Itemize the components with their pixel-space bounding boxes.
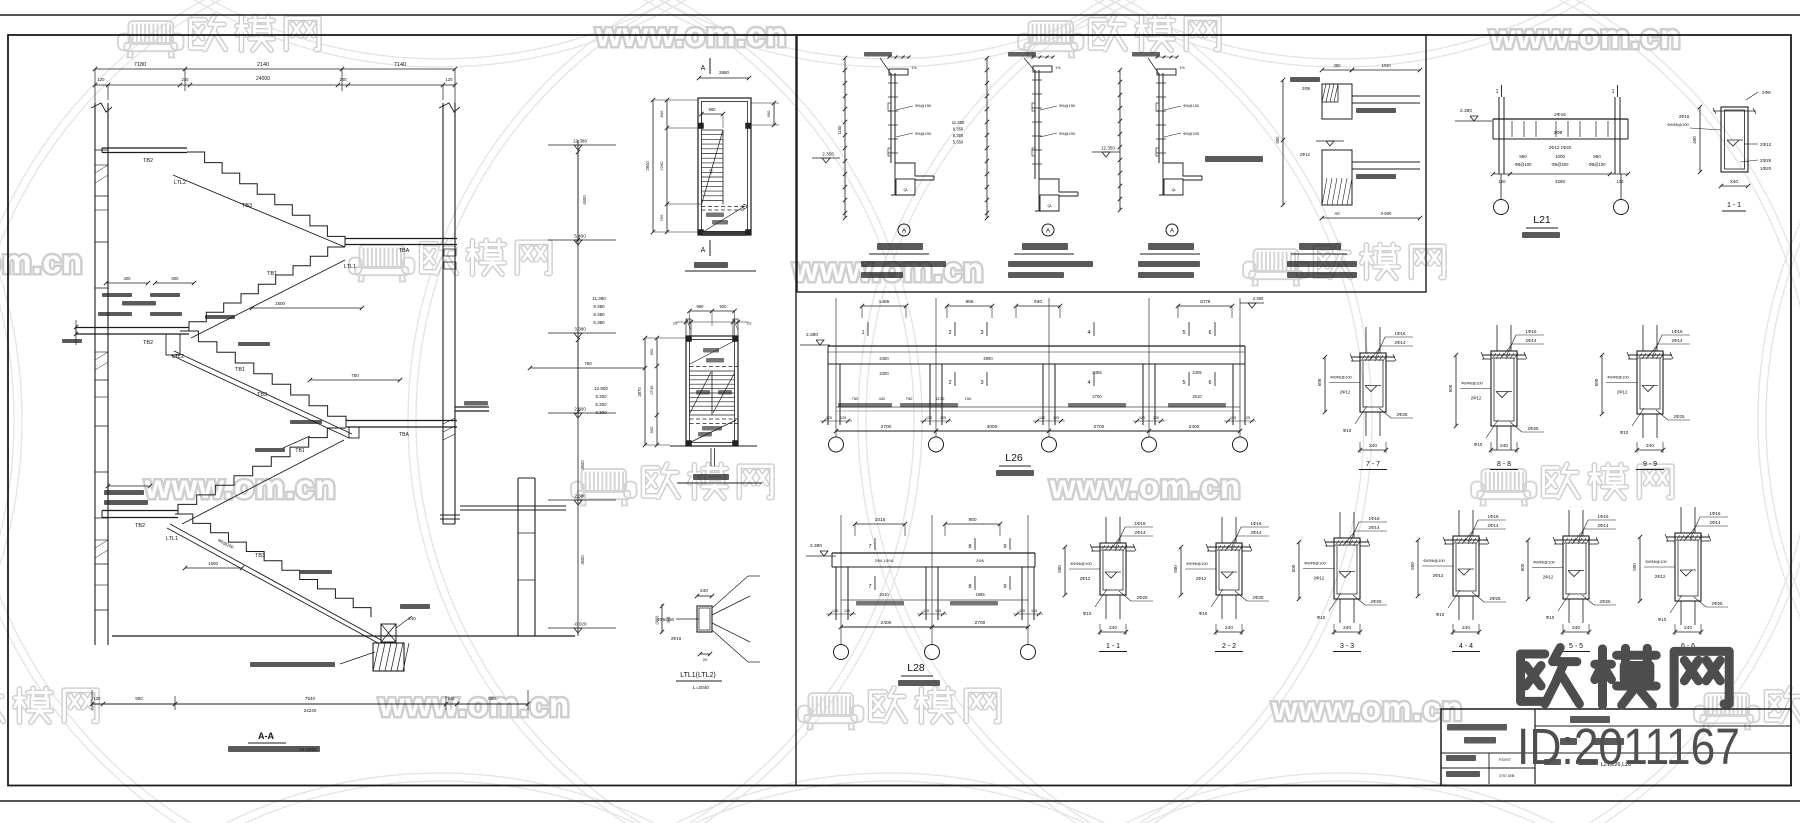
plan2 left dims [656,338,658,445]
svg-text:24240: 24240 [304,708,317,713]
svg-text:400: 400 [1692,136,1697,144]
plan2 flight diagonals [690,372,711,413]
svg-text:950: 950 [1519,154,1527,159]
L21 beam band [1493,118,1628,120]
svg-text:1: 1 [1496,89,1499,95]
svg-text:2700: 2700 [1094,424,1105,430]
railing plate [1158,73,1160,163]
svg-text:7: 7 [868,544,871,550]
svg-text:350: 350 [666,616,671,623]
svg-text:360: 360 [1334,63,1342,68]
svg-text:9: 9 [1003,544,1006,550]
svg-text:125: 125 [1019,609,1025,613]
svg-text:1Φ16: 1Φ16 [1134,521,1146,526]
railing handrail cap [889,69,908,75]
L26 top dims [862,305,906,307]
LTL1 left dim [661,604,663,633]
left wall hatch blocks [95,165,108,210]
plan2 top diagonal [690,340,736,364]
svg-text:125: 125 [1244,416,1250,420]
svg-text:TB2: TB2 [143,340,153,346]
section 8-8 [1496,325,1498,351]
svg-text:Φ10: Φ10 [1317,615,1326,620]
svg-text:1: 1 [1612,89,1615,95]
svg-text:2Φ12: 2Φ12 [1760,142,1772,147]
label 飘窗大样 [1299,243,1341,250]
svg-text:Φ8Φ6@100: Φ8Φ6@100 [1645,559,1667,564]
svg-text:150: 150 [965,396,972,401]
svg-text:950: 950 [1593,154,1601,159]
svg-text:2400: 2400 [881,620,892,626]
svg-text:240: 240 [1462,625,1470,631]
svg-text:2Φ12: 2Φ12 [1300,152,1311,157]
svg-text:1130: 1130 [936,396,945,401]
section 6-6 [1680,507,1682,533]
svg-text:240: 240 [1730,179,1738,185]
svg-text:120: 120 [94,696,102,701]
svg-text:1%: 1% [1179,66,1185,70]
svg-text:Φ10: Φ10 [1546,615,1555,620]
svg-text:2010: 2010 [879,592,889,597]
svg-text:1015: 1015 [875,517,886,523]
svg-text:1500: 1500 [275,301,286,306]
svg-text:L28: L28 [907,662,925,674]
plan1 lower diagonal [703,206,745,232]
svg-text:900: 900 [766,110,771,117]
svg-text:5: 5 [1182,380,1185,386]
svg-text:Φ8@100: Φ8@100 [1589,162,1607,167]
section 9-9 [1642,325,1644,351]
svg-text:Φ6@150: Φ6@150 [1183,103,1200,108]
svg-text:L26: L26 [1005,452,1023,464]
wall beam QL marks [444,249,456,256]
svg-text:125: 125 [1153,416,1159,420]
landing beam block [166,334,180,355]
svg-text:500: 500 [1520,563,1525,571]
base beam [381,624,396,642]
circle A [1166,224,1178,236]
2F dims cluster [106,282,148,284]
svg-text:2Φ12: 2Φ12 [1433,573,1444,578]
svg-text:1Φ16: 1Φ16 [1525,329,1537,334]
svg-text:1%: 1% [911,66,917,70]
svg-text:Φ8Φ6@100: Φ8Φ6@100 [1423,558,1445,563]
svg-text:2Φ25: 2Φ25 [1527,426,1539,431]
svg-text:8.380: 8.380 [593,312,605,317]
svg-text:500: 500 [1632,563,1637,571]
L26 right end level [1248,303,1256,308]
svg-text:2860: 2860 [719,70,730,75]
svg-text:900: 900 [649,426,654,433]
svg-text:2Φ25: 2Φ25 [1599,599,1611,604]
svg-text:1985: 1985 [975,592,985,597]
svg-text:2Φ14: 2Φ14 [1250,530,1262,535]
railing plate [890,73,892,163]
svg-text:960: 960 [709,107,717,112]
svg-text:125: 125 [1039,416,1045,420]
bottom dimension line [92,703,528,705]
svg-text:2Φ16: 2Φ16 [1554,112,1566,118]
svg-text:2Φ6 1Φ16: 2Φ6 1Φ16 [875,558,894,563]
plan1 top dim [699,77,749,79]
svg-text:2Φ12: 2Φ12 [1471,396,1482,401]
svg-text:240: 240 [1500,443,1508,449]
svg-text:430: 430 [879,396,886,401]
svg-text:960: 960 [697,304,705,309]
svg-text:650: 650 [649,348,654,355]
svg-text:8.350: 8.350 [953,133,964,138]
svg-text:1Φ16: 1Φ16 [1487,514,1499,519]
plan1 dim 960 [702,113,724,115]
leader top [1132,52,1160,57]
balcony slab [1163,163,1202,176]
svg-text:1%: 1% [1055,66,1061,70]
svg-text:125: 125 [1053,416,1059,420]
svg-text:500: 500 [1410,562,1415,570]
svg-text:2700: 2700 [881,424,892,430]
svg-text:2: 2 [948,330,951,336]
stair plan view 2 [686,336,738,446]
svg-text:4500: 4500 [582,195,587,205]
svg-text:2.380: 2.380 [806,332,818,338]
svg-text:600: 600 [172,276,180,281]
svg-text:860: 860 [488,696,496,701]
lower block [1322,150,1352,205]
svg-text:9.300: 9.300 [595,394,607,399]
label 阳台栏板2 [1022,243,1068,250]
svg-text:760: 760 [659,214,664,221]
L26 beam band [828,345,1245,347]
svg-text:TBA: TBA [399,248,410,254]
foundation block [373,643,404,671]
svg-text:500: 500 [1057,565,1062,573]
L28 bottom chord [841,599,1028,601]
LTL1 leaders [712,576,748,608]
svg-text:Φ8Φ6@100: Φ8Φ6@100 [1070,561,1092,566]
svg-text:0757-SNE: 0757-SNE [1499,774,1515,778]
plan1 label [694,262,728,268]
watermark logos [118,21,184,57]
svg-text:2.380: 2.380 [1460,108,1472,114]
svg-text:Φ10: Φ10 [1343,428,1352,433]
svg-text:24000: 24000 [256,76,270,82]
svg-text:TB3: TB3 [257,392,267,398]
railing notches [1032,103,1035,111]
svg-text:11.350: 11.350 [952,120,965,125]
svg-text:A: A [701,247,706,254]
svg-text:8: 8 [968,544,971,550]
svg-text:TB1: TB1 [235,367,245,373]
svg-text:2Φ16: 2Φ16 [671,636,682,641]
svg-text:2Φ25: 2Φ25 [1711,601,1723,606]
ground line [112,635,575,637]
svg-text:950: 950 [968,517,976,523]
svg-text:2Φ12 1Φ20: 2Φ12 1Φ20 [1549,145,1572,150]
svg-text:Φ8Φ6@100: Φ8Φ6@100 [1330,375,1352,380]
svg-text:Φ8Φ6@100: Φ8Φ6@100 [1461,381,1483,386]
upper block [1322,84,1352,119]
svg-text:2.380: 2.380 [810,543,822,549]
L28 section marks [874,538,876,550]
svg-text:1Φ16: 1Φ16 [1368,516,1380,521]
svg-text:2405: 2405 [1192,370,1202,375]
svg-text:2Φ12: 2Φ12 [1655,574,1666,579]
svg-text:2400: 2400 [879,356,889,361]
flight slab line b [171,355,349,438]
svg-text:500: 500 [1594,378,1599,386]
svg-text:2Φ12: 2Φ12 [1543,575,1554,580]
svg-text:400: 400 [124,276,132,281]
balcony slab [895,163,934,176]
svg-text:A: A [1046,228,1051,235]
svg-text:240: 240 [408,616,416,621]
svg-text:2400: 2400 [879,371,889,376]
svg-text:2.800: 2.800 [574,407,586,412]
plan2 ground line [670,445,757,447]
svg-text:2900: 2900 [983,356,993,361]
svg-text:2Φ25: 2Φ25 [1136,595,1148,600]
level + leader [1205,156,1263,162]
svg-text:Φ10: Φ10 [1199,611,1208,616]
svg-text:2840: 2840 [645,161,650,171]
level dimension string [577,140,579,636]
svg-text:125: 125 [935,609,941,613]
svg-text:Φ6@150: Φ6@150 [915,103,932,108]
svg-text:900: 900 [135,696,143,701]
svg-text:C9: C9 [747,322,752,326]
svg-text:3600: 3600 [580,555,585,565]
svg-text:6.300: 6.300 [595,402,607,407]
svg-text:120: 120 [446,77,454,82]
svg-text:2Φ25: 2Φ25 [1396,412,1408,417]
svg-text:240: 240 [1572,625,1580,631]
1F slab right [460,505,566,507]
railing notches [1156,103,1159,111]
flight soffit [173,175,345,247]
svg-text:2700: 2700 [975,620,986,626]
svg-text:2Φ12: 2Φ12 [1340,390,1351,395]
svg-text:9.350: 9.350 [953,127,964,132]
svg-text:2Φ8: 2Φ8 [1762,90,1771,95]
svg-text:7540: 7540 [305,696,316,701]
svg-text:125: 125 [840,416,846,420]
svg-text:9: 9 [1003,584,1006,590]
svg-text:240: 240 [1109,625,1117,631]
L26 section marks top [867,322,869,336]
balcony detail 3 [1119,70,1121,210]
mid landing 1 [345,238,457,240]
section 7-7 [1365,327,1367,353]
svg-text:1 - 1: 1 - 1 [1727,202,1741,209]
svg-text:Φ10: Φ10 [1658,617,1667,622]
leader top [864,52,892,57]
svg-text:500: 500 [1291,564,1296,572]
left wall [94,103,96,645]
svg-text:Φ8Φ6@100: Φ8Φ6@100 [1533,560,1555,565]
flight steps lower TB1 [178,428,346,514]
svg-text:A0: A0 [1334,211,1340,216]
svg-text:240: 240 [1684,625,1692,631]
svg-text:2 - 2: 2 - 2 [1222,643,1236,650]
right wall [442,103,444,524]
plan1 dashed break [702,206,748,208]
svg-text:www.om.cn: www.om.cn [1049,468,1241,505]
section 1-1 [1105,517,1107,543]
bay window detail [1282,80,1284,205]
flight steps TB3 mid [180,331,346,427]
svg-text:1 - 1: 1 - 1 [1106,643,1120,650]
L28 top dims [855,523,905,525]
vertical divider [795,35,797,786]
svg-text:12.380: 12.380 [573,139,587,144]
svg-text:500: 500 [1317,378,1322,386]
railing plate [1034,70,1036,179]
svg-text:Φ6@150: Φ6@150 [1059,103,1076,108]
svg-text:TBA: TBA [399,432,409,438]
railing handrail cap [1157,69,1176,75]
svg-text:www.om.cn: www.om.cn [1271,690,1463,727]
svg-text:2010: 2010 [1192,394,1202,399]
svg-text:2Φ25: 2Φ25 [1252,595,1264,600]
plan2 bottom diagonal [691,420,736,442]
svg-text:ID:2011167: ID:2011167 [1517,718,1740,775]
plan1 flight diagonal [702,130,724,205]
leader top [1008,52,1036,57]
L26 support dims [820,420,852,422]
dim under flight [252,307,362,309]
svg-text:Φ8@100: Φ8@100 [1515,162,1533,167]
svg-text:12.350: 12.350 [1101,146,1115,151]
svg-text:www.om.cn: www.om.cn [0,243,83,280]
svg-text:125: 125 [923,609,929,613]
svg-text:2.350: 2.350 [822,152,834,157]
svg-text:A-A: A-A [258,731,274,741]
svg-text:2Φ12: 2Φ12 [1196,576,1207,581]
svg-text:2Φ14: 2Φ14 [1671,338,1683,343]
svg-text:930: 930 [1034,299,1042,305]
svg-text:2465: 2465 [1092,370,1102,375]
svg-text:240: 240 [1343,625,1351,631]
svg-text:2Φ8: 2Φ8 [1554,130,1563,135]
plan1 treads [702,129,724,131]
svg-text:2Φ25: 2Φ25 [1370,599,1382,604]
plan2 label [693,474,729,480]
svg-text:Φ10: Φ10 [1436,612,1445,617]
railing bars [1156,82,1166,84]
svg-text:41-0200: 41-0200 [299,747,317,753]
section 5-5 [1568,510,1570,536]
svg-text:2Φ8: 2Φ8 [1302,86,1311,91]
stair plan view 1 [698,98,751,235]
big watermark 欧模网 [1521,648,1730,706]
svg-text:125: 125 [1230,416,1236,420]
svg-text:7180: 7180 [134,62,146,68]
svg-text:TB2: TB2 [143,158,153,164]
svg-text:2870: 2870 [637,387,642,397]
svg-text:125: 125 [832,609,838,613]
svg-text:TB2: TB2 [135,523,145,529]
foundation leader text [340,652,375,664]
svg-text:7: 7 [868,584,871,590]
svg-text:Φ6@200: Φ6@200 [1059,131,1076,136]
top-right detail box [797,35,1426,292]
svg-text:1Φ16: 1Φ16 [1250,521,1262,526]
plan2 dashed [690,418,739,420]
sheet outer bottom line [0,800,1800,802]
L28 supports [835,567,837,620]
lower column [517,478,519,636]
svg-text:2260: 2260 [659,161,664,171]
svg-text:965: 965 [965,299,973,305]
svg-text:TB3: TB3 [242,203,252,209]
svg-text:2140: 2140 [257,62,269,68]
svg-text:750: 750 [584,361,592,366]
plan2 corner columns [686,336,692,342]
L28 beam band [832,552,1035,554]
svg-text:5.350: 5.350 [953,140,964,145]
svg-text:240: 240 [448,696,456,701]
wall break symbol left [91,103,112,112]
svg-text:Φ10: Φ10 [1620,430,1629,435]
svg-text:Φ8Φ6@100: Φ8Φ6@100 [1667,122,1689,127]
svg-text:3000: 3000 [987,424,998,430]
svg-text:9 - 9: 9 - 9 [1643,461,1657,468]
svg-text:125: 125 [926,416,932,420]
svg-text:3.300: 3.300 [595,410,607,415]
svg-text:750: 750 [351,373,359,378]
railing notches [888,103,891,111]
railing bars [888,82,898,84]
svg-text:5: 5 [1182,330,1185,336]
svg-text:2Φ14: 2Φ14 [1394,340,1406,345]
svg-text:Φ10: Φ10 [1474,442,1483,447]
top dimension line 2 [95,84,455,86]
svg-text:2.380: 2.380 [574,494,586,499]
svg-text:2Φ25: 2Φ25 [1760,158,1772,163]
flight slab line a [174,351,352,434]
L21 axis circles [1494,200,1509,215]
L21 support columns [1498,97,1500,174]
balcony detail 1 [844,58,846,218]
svg-text:Φ8Φ6@100: Φ8Φ6@100 [1304,561,1326,566]
svg-text:LTL1: LTL1 [166,536,178,542]
svg-text:1Φ20: 1Φ20 [1760,166,1772,171]
svg-text:1000: 1000 [1555,154,1566,159]
svg-text:www.om.cn: www.om.cn [378,686,570,723]
wall break symbol right [439,103,460,112]
svg-text:2Φ25: 2Φ25 [1489,596,1501,601]
svg-text:1500: 1500 [208,561,219,566]
svg-text:125: 125 [1031,609,1037,613]
plan1 dim right [773,103,775,125]
svg-text:Φ6@200: Φ6@200 [1183,131,1200,136]
rebar leader bottom flight [283,436,310,448]
svg-text:www.om.cn: www.om.cn [144,468,336,505]
svg-text:Φ6@200: Φ6@200 [915,131,932,136]
svg-text:Φ10: Φ10 [1083,611,1092,616]
svg-text:Φ8Φ6@100: Φ8Φ6@100 [1186,561,1208,566]
svg-text:3 - 3: 3 - 3 [1340,643,1354,650]
svg-text:240: 240 [700,588,708,594]
svg-text:840: 840 [659,110,664,117]
svg-text:11.380: 11.380 [592,296,606,301]
svg-text:500: 500 [1448,384,1453,392]
svg-text:240: 240 [1369,443,1377,449]
svg-text:1040: 1040 [1381,63,1391,68]
svg-text:2Φ14: 2Φ14 [1487,523,1499,528]
balcony detail 2 [986,58,988,218]
svg-text:1075: 1075 [1200,299,1211,305]
